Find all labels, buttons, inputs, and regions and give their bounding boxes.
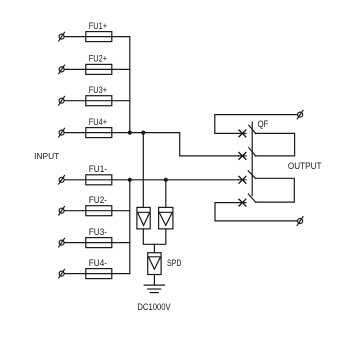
svg-text:FU3+: FU3+ — [89, 85, 107, 95]
svg-text:SPD: SPD — [167, 258, 181, 269]
svg-text:FU4-: FU4- — [89, 258, 107, 268]
svg-text:FU3-: FU3- — [89, 227, 107, 237]
svg-text:FU1+: FU1+ — [89, 21, 107, 31]
svg-text:OUTPUT: OUTPUT — [288, 161, 322, 172]
svg-text:QF: QF — [258, 119, 269, 130]
svg-text:INPUT: INPUT — [34, 152, 59, 161]
svg-text:FU4+: FU4+ — [89, 117, 107, 127]
svg-text:DC1000V: DC1000V — [137, 302, 171, 313]
svg-text:FU1-: FU1- — [89, 164, 107, 174]
svg-text:FU2-: FU2- — [89, 195, 107, 205]
svg-text:FU2+: FU2+ — [89, 54, 107, 64]
